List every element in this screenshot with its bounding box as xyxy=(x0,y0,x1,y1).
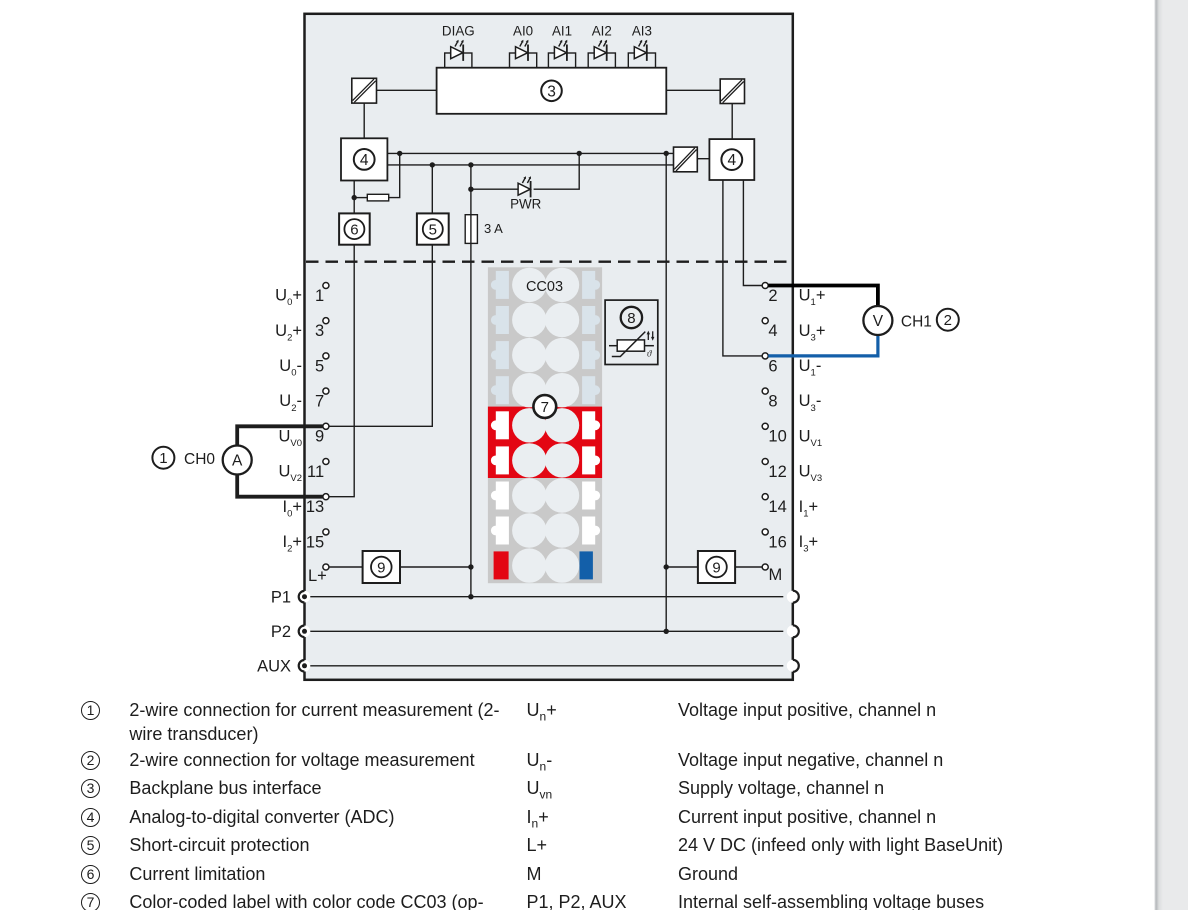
svg-text:10: 10 xyxy=(768,428,786,446)
legend text row xyxy=(129,778,321,799)
isolation barrier middle right xyxy=(674,147,698,172)
bus labels xyxy=(257,589,291,676)
legend callout 6 xyxy=(81,865,100,884)
bus connector right P2 xyxy=(787,625,799,637)
junction P1 feed xyxy=(468,594,473,599)
LED AI1 xyxy=(552,24,572,61)
bus AUX xyxy=(305,665,783,667)
resistor (current limit) xyxy=(367,194,388,201)
legend callout 2 xyxy=(81,751,100,770)
CH1 wire black xyxy=(768,286,878,307)
terminal 16 contact xyxy=(762,529,768,535)
svg-text:U0+: U0+ xyxy=(275,287,302,309)
bus P2 xyxy=(305,630,783,632)
legend text row xyxy=(129,750,474,771)
legend callout 7 xyxy=(81,893,100,910)
signal labels left U0+ U2+ U0- U2- UV0 UV2 I0+ I2+ xyxy=(275,287,302,555)
svg-text:1: 1 xyxy=(315,287,324,305)
svg-text:M: M xyxy=(769,566,783,584)
junction P2 feed xyxy=(664,629,669,634)
wire S3 to box4R xyxy=(697,158,709,160)
svg-text:7: 7 xyxy=(541,399,549,416)
svg-text:U3+: U3+ xyxy=(799,322,826,344)
junction box5 on line B xyxy=(430,162,435,167)
svg-text:I0+: I0+ xyxy=(282,498,302,520)
svg-text:AI3: AI3 xyxy=(632,24,652,39)
module body xyxy=(305,14,793,680)
wire S1 to box4L xyxy=(363,103,365,140)
voltmeter V xyxy=(863,306,892,335)
terminal 9 contact xyxy=(323,423,329,429)
svg-text:I2+: I2+ xyxy=(282,533,302,555)
svg-text:8: 8 xyxy=(768,393,777,411)
wire resistor to line A xyxy=(389,153,400,197)
infeed element U9 right xyxy=(698,551,735,583)
LED PWR xyxy=(510,176,542,211)
wire box3 left link xyxy=(377,89,437,91)
bus connector left AUX xyxy=(299,660,311,672)
terminal 11 contact xyxy=(323,458,329,464)
svg-text:U2+: U2+ xyxy=(275,322,302,344)
junction PWR tap xyxy=(468,187,473,192)
svg-text:U1+: U1+ xyxy=(799,287,826,309)
legend callout 1 xyxy=(81,701,100,720)
svg-text:AI0: AI0 xyxy=(513,24,533,39)
svg-text:CH1: CH1 xyxy=(901,314,932,331)
svg-text:P2: P2 xyxy=(271,623,291,641)
terminal 7 contact xyxy=(323,388,329,394)
legend text row xyxy=(129,807,394,828)
terminal 10 contact xyxy=(762,423,768,429)
bus connector left P1 xyxy=(299,591,311,603)
junction L+ branch xyxy=(468,564,473,569)
page edge strip xyxy=(1154,0,1188,910)
svg-text:6: 6 xyxy=(350,221,358,238)
junction resistor tap xyxy=(352,195,357,200)
svg-text:8: 8 xyxy=(627,310,635,327)
LED AI2 xyxy=(592,24,612,61)
svg-text:6: 6 xyxy=(768,357,777,375)
svg-text:UV0: UV0 xyxy=(278,427,302,449)
svg-text:4: 4 xyxy=(727,152,736,169)
svg-text:5: 5 xyxy=(315,357,324,375)
svg-text:ϑ: ϑ xyxy=(647,349,652,359)
wire box4L to box6 xyxy=(353,181,355,214)
ADC U4 right xyxy=(709,139,754,180)
junction PWR branch on line A xyxy=(577,151,582,156)
current limitation U6 xyxy=(339,213,370,244)
terminal 1 contact xyxy=(323,282,329,288)
terminal 4 contact xyxy=(762,318,768,324)
LED AI0 xyxy=(513,24,533,61)
bus connector left P2 xyxy=(299,626,311,638)
svg-text:2: 2 xyxy=(768,287,777,305)
color-coded label CC03 xyxy=(488,267,602,583)
LED notch DIAG xyxy=(445,53,472,68)
svg-text:V: V xyxy=(873,313,884,330)
svg-text:3: 3 xyxy=(315,322,324,340)
wire box4R to terminal 2 xyxy=(743,180,762,286)
wire box4R to terminal 6 xyxy=(723,180,762,356)
svg-text:16: 16 xyxy=(768,533,786,551)
wire line B xyxy=(387,164,673,166)
wire PWR to line A xyxy=(534,153,580,189)
bus P1 xyxy=(305,596,783,598)
svg-text:5: 5 xyxy=(429,221,437,238)
wire fuse chain bottom xyxy=(470,243,472,596)
svg-text:14: 14 xyxy=(768,498,786,516)
svg-text:UV1: UV1 xyxy=(799,427,823,449)
signal labels right U1+ U3+ U1- U3- UV1 UV3 I1+ I3+ xyxy=(799,287,826,555)
svg-text:P1: P1 xyxy=(271,589,291,607)
svg-text:3: 3 xyxy=(547,83,556,100)
wire box6 to terminal 13 xyxy=(329,245,354,497)
wire PWR branch xyxy=(471,188,518,190)
svg-text:CH0: CH0 xyxy=(184,451,215,468)
svg-text:4: 4 xyxy=(768,322,777,340)
dashed separator line xyxy=(306,261,791,263)
terminal numbers right xyxy=(768,287,786,584)
svg-text:9: 9 xyxy=(377,559,385,576)
ADC U4 left xyxy=(341,138,387,180)
CH0 measuring loop wire xyxy=(237,426,323,446)
LED DIAG xyxy=(442,24,475,61)
svg-text:I3+: I3+ xyxy=(799,533,819,555)
LED notch AI1 xyxy=(548,53,575,68)
LED notch AI2 xyxy=(588,53,615,68)
callout 2 xyxy=(937,309,959,331)
fuse 3A xyxy=(465,215,503,244)
svg-text:11: 11 xyxy=(307,463,324,481)
svg-text:AUX: AUX xyxy=(257,658,291,676)
svg-text:U0-: U0- xyxy=(279,357,302,379)
svg-text:UV3: UV3 xyxy=(799,463,823,485)
svg-text:9: 9 xyxy=(315,428,324,446)
wire line A xyxy=(387,152,673,154)
svg-text:1: 1 xyxy=(159,450,167,467)
wire limiter to M xyxy=(735,566,762,568)
svg-text:U2-: U2- xyxy=(279,392,302,414)
callout 1 xyxy=(152,447,174,469)
wire box5 to terminal 9 xyxy=(329,245,432,427)
bus connector right P1 xyxy=(787,591,799,603)
legend text row xyxy=(129,864,265,885)
LED notch AI3 xyxy=(628,53,655,68)
svg-text:3 A: 3 A xyxy=(484,221,503,236)
svg-text:PWR: PWR xyxy=(510,197,542,212)
terminal 5 contact xyxy=(323,353,329,359)
svg-text:L+: L+ xyxy=(308,567,327,585)
isolation barrier left top xyxy=(352,78,377,103)
svg-text:AI2: AI2 xyxy=(592,24,612,39)
junction main vertical on line A xyxy=(664,151,669,156)
wire resistor branch xyxy=(354,197,367,199)
wire box3 right link xyxy=(666,89,720,91)
junction M branch xyxy=(664,564,669,569)
svg-text:13: 13 xyxy=(306,498,324,516)
wire box5 up xyxy=(431,165,433,214)
junction resistor branch on line A xyxy=(397,151,402,156)
svg-text:CC03: CC03 xyxy=(526,279,563,295)
svg-text:DIAG: DIAG xyxy=(442,24,475,39)
LED notch AI0 xyxy=(510,53,537,68)
wire limiter to P1 branch xyxy=(400,566,471,568)
terminal 2 contact xyxy=(762,282,768,288)
terminal 3 contact xyxy=(323,318,329,324)
CH1 wire blue xyxy=(768,335,878,356)
terminal L+ contact xyxy=(323,564,329,570)
svg-text:AI1: AI1 xyxy=(552,24,572,39)
terminal 15 contact xyxy=(323,529,329,535)
isolation barrier right top xyxy=(720,79,744,104)
legend callout 3 xyxy=(81,779,100,798)
svg-text:I1+: I1+ xyxy=(799,498,819,520)
svg-text:2: 2 xyxy=(944,312,952,329)
svg-text:9: 9 xyxy=(712,559,720,576)
svg-text:12: 12 xyxy=(768,463,786,481)
junction fuse branch on line B xyxy=(468,162,473,167)
svg-text:A: A xyxy=(232,453,243,470)
svg-text:15: 15 xyxy=(306,533,324,551)
ammeter A xyxy=(223,446,252,475)
wire main right vertical xyxy=(665,153,667,631)
callout 7 xyxy=(533,395,556,418)
svg-text:7: 7 xyxy=(315,393,324,411)
bus connector right AUX xyxy=(787,660,799,672)
infeed element U9 left xyxy=(363,551,400,583)
legend text row xyxy=(129,700,499,721)
svg-text:U3-: U3- xyxy=(799,392,822,414)
terminal 6 contact xyxy=(762,353,768,359)
terminal 8 contact xyxy=(762,388,768,394)
short-circuit protection U5 xyxy=(417,213,449,244)
legend text row xyxy=(129,724,258,745)
LED AI3 xyxy=(632,24,652,61)
terminal numbers left xyxy=(306,287,327,585)
svg-text:4: 4 xyxy=(360,152,369,169)
legend text row xyxy=(129,835,309,856)
legend text row xyxy=(129,892,483,910)
legend callout 5 xyxy=(81,836,100,855)
backplane bus interface U3 xyxy=(437,68,667,114)
terminal 12 contact xyxy=(762,458,768,464)
svg-text:UV2: UV2 xyxy=(278,463,302,485)
overvoltage/thermal element U8 xyxy=(605,300,658,364)
terminal 13 contact xyxy=(323,494,329,500)
svg-text:U1-: U1- xyxy=(799,357,822,379)
terminal M contact xyxy=(762,564,768,570)
wire fuse chain top xyxy=(470,165,472,215)
wire M branch xyxy=(666,566,698,568)
terminal 14 contact xyxy=(762,494,768,500)
legend callout 4 xyxy=(81,808,100,827)
wire L+ to limiter xyxy=(329,566,363,568)
wire S2 to box4R xyxy=(731,104,733,141)
